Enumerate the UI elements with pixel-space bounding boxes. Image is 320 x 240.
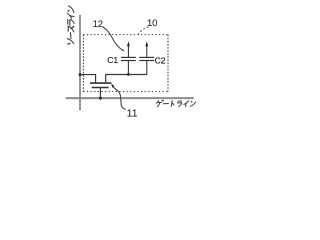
- gate line (horizontal bus): [66, 97, 194, 99]
- transistor 11 (TFT) channel bar: [90, 82, 111, 84]
- leader line for label 12: [103, 27, 123, 51]
- ト: [171, 101, 172, 107]
- ソ: [68, 43, 70, 45]
- ゲ: [156, 101, 158, 104]
- svg-text:12: 12: [93, 19, 103, 30]
- transistor 11 gate electrode bar: [92, 87, 109, 89]
- capacitor C1 top plate: [121, 56, 136, 58]
- node: junction dot at C1: [127, 73, 130, 76]
- node: junction dot on source line: [79, 73, 82, 76]
- ン: [68, 10, 69, 11]
- ン: [191, 101, 192, 102]
- leader line for label 11 with arrowhead: [113, 87, 126, 110]
- wire: C2 bottom lead: [146, 61, 148, 75]
- leader line for label 10 (dashed): [138, 27, 148, 35]
- source line (vertical bus): [79, 15, 81, 111]
- ー: [70, 33, 72, 39]
- ス: [68, 26, 74, 32]
- capacitor C1 bottom plate: [121, 60, 136, 62]
- dashed box 10 : right edge: [167, 35, 169, 92]
- dashed box 10 : top edge: [83, 34, 168, 36]
- イ: [67, 13, 71, 18]
- svg-text:10: 10: [147, 18, 157, 29]
- ー: [163, 102, 168, 104]
- wire: C1 bottom lead: [127, 61, 129, 74]
- text ソースライン (source line, vertical): [67, 6, 74, 45]
- wire: C1 top lead with arrow: [127, 45, 129, 57]
- wire: C2 top lead with arrow: [146, 45, 148, 57]
- text ゲートライン (gate line, horizontal): [156, 100, 196, 107]
- dashed box 10 : left edge: [82, 35, 84, 92]
- ラ: [67, 20, 69, 25]
- node: junction dot on gate line: [99, 97, 102, 100]
- ラ: [178, 100, 182, 102]
- svg-text:C2: C2: [155, 55, 166, 65]
- イ: [184, 101, 189, 105]
- wire: gate lead down to gate line: [99, 88, 101, 99]
- svg-text:C1: C1: [107, 55, 118, 65]
- wire: transistor source to capacitors: [106, 75, 148, 83]
- svg-text:11: 11: [127, 109, 138, 120]
- capacitor C2 top plate: [139, 56, 154, 58]
- capacitor C2 bottom plate: [139, 60, 154, 62]
- dashed box 10 : bottom edge: [83, 91, 168, 93]
- wire: source line to transistor drain: [80, 75, 96, 83]
